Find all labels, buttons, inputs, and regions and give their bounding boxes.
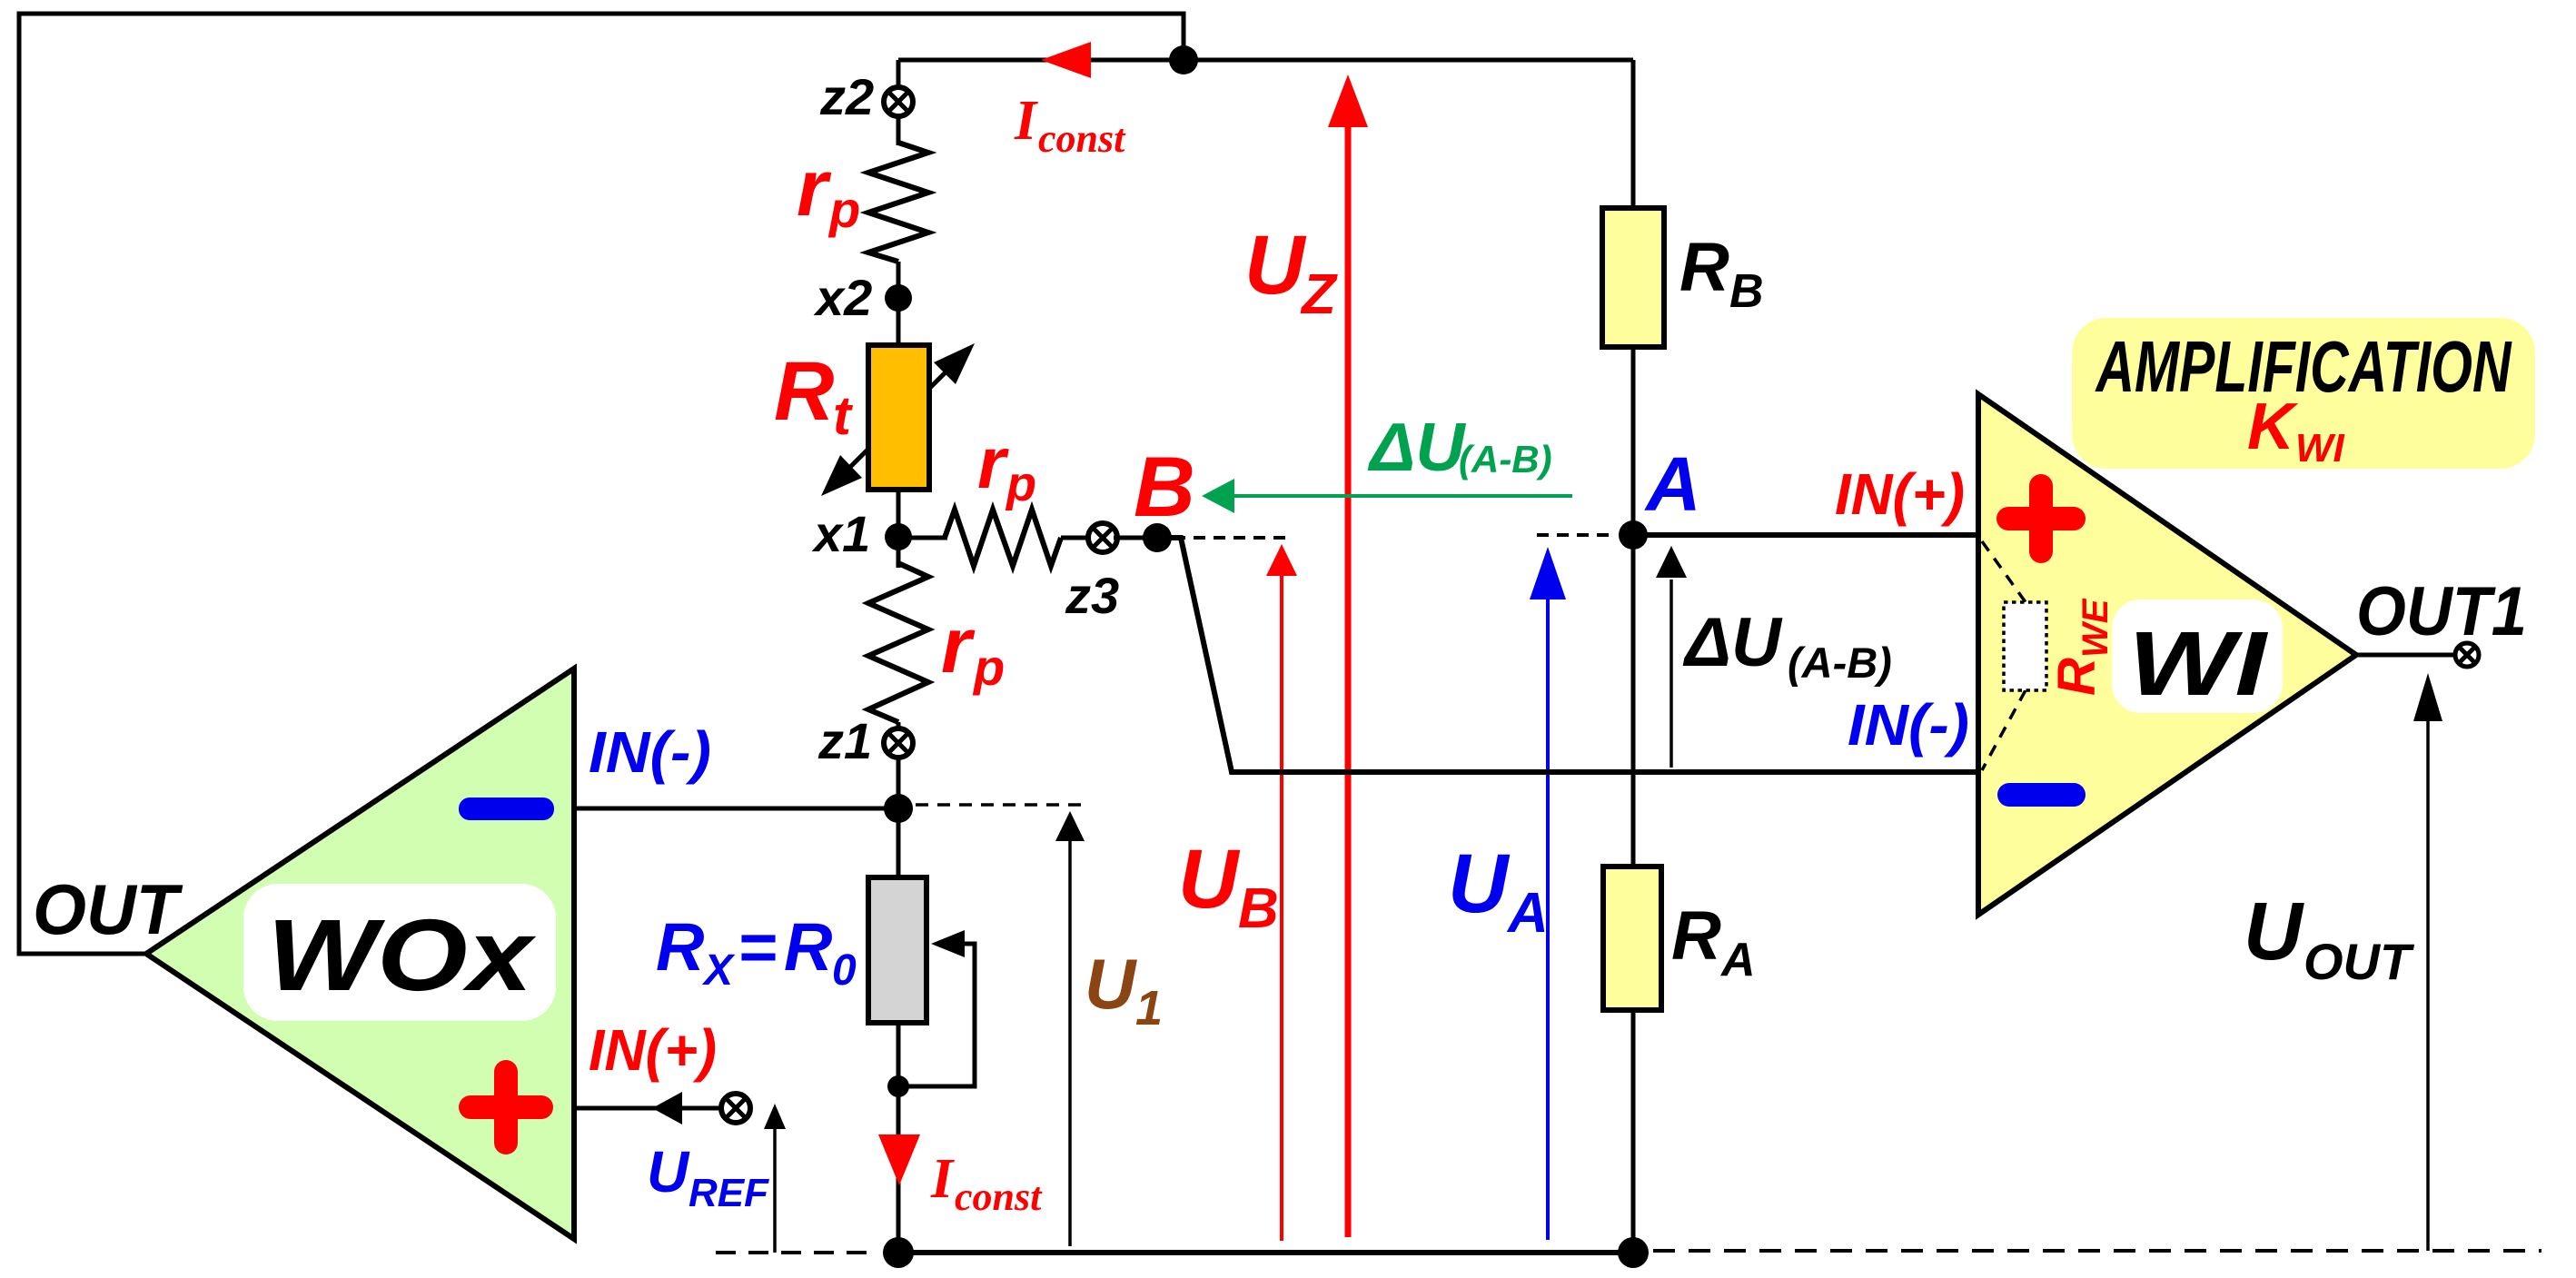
voltage arrow UOUT — [2426, 719, 2430, 1251]
thermistor Rt body — [868, 345, 929, 490]
svg-text:B: B — [1729, 265, 1764, 318]
node B — [1143, 523, 1172, 552]
WI minus input marker — [1997, 783, 2086, 807]
svg-text:AMPLIFICATION: AMPLIFICATION — [2095, 326, 2512, 407]
wire B to WI IN(-) — [1159, 538, 1980, 772]
node U1 junction — [884, 794, 913, 823]
voltage arrow U1 — [1068, 840, 1072, 1246]
svg-text:const: const — [1038, 116, 1126, 161]
svg-text:p: p — [827, 181, 860, 238]
svg-text:B: B — [1134, 439, 1195, 534]
terminal OUT1 — [2455, 643, 2479, 667]
dashed bottom right segment — [1653, 1249, 2541, 1253]
svg-text:p: p — [972, 639, 1005, 696]
terminal z1 — [884, 728, 913, 758]
svg-text:R: R — [2047, 658, 2106, 696]
node bottom left — [883, 1237, 914, 1268]
svg-text:U: U — [1178, 833, 1241, 926]
terminal z3 — [1088, 523, 1117, 552]
svg-text:IN(+): IN(+) — [1835, 461, 1965, 527]
wire RB to node A — [1631, 347, 1636, 538]
svg-text:A: A — [1506, 882, 1549, 945]
potentiometer Rx body — [868, 877, 926, 1023]
svg-text:R: R — [1671, 897, 1721, 975]
resistor RB body — [1602, 208, 1664, 347]
svg-text:0: 0 — [832, 946, 857, 995]
svg-text:ΔU: ΔU — [1367, 409, 1466, 485]
terminal UREF input — [721, 1094, 750, 1123]
voltage arrow UREF — [773, 1127, 777, 1253]
label RWE (rotated) — [2047, 598, 2115, 696]
svg-text:I: I — [930, 1148, 955, 1210]
callout AMPLIFICATION KWI — [2072, 318, 2535, 469]
svg-text:X: X — [701, 946, 736, 995]
svg-text:U: U — [647, 1139, 690, 1204]
resistor RWE (dotted) — [2004, 602, 2046, 690]
svg-text:R: R — [774, 345, 834, 438]
svg-text:Z: Z — [1300, 263, 1338, 326]
wire lead z2 to rp1 — [897, 115, 901, 145]
svg-text:x1: x1 — [811, 505, 870, 562]
svg-text:IN(+): IN(+) — [589, 1017, 717, 1083]
WOx name plate — [243, 884, 556, 1021]
svg-text:I: I — [1014, 90, 1038, 152]
resistor rp1 zigzag — [868, 143, 928, 262]
wire rp3 to z1 — [897, 722, 901, 734]
svg-text:IN(-): IN(-) — [589, 719, 711, 785]
svg-text:U: U — [1085, 944, 1137, 1024]
svg-text:OUT: OUT — [33, 869, 183, 949]
voltage arrow UB — [1280, 574, 1283, 1241]
voltage arrow UA — [1546, 598, 1550, 1240]
dashed level line at A — [1537, 533, 1617, 537]
svg-text:OUT: OUT — [2304, 933, 2415, 990]
svg-text:R: R — [1679, 229, 1729, 306]
wire z3 to B — [1114, 536, 1157, 540]
resistor RA body — [1603, 867, 1661, 1010]
wire IN(-) from WOx to node — [574, 807, 898, 811]
wire Rt to x1 — [897, 490, 901, 538]
svg-text:U: U — [2244, 887, 2304, 977]
amplifier WI body — [1978, 394, 2356, 915]
wire node A to WI IN(+) — [1633, 532, 1980, 538]
svg-text:x2: x2 — [813, 269, 872, 326]
wire WI output — [2356, 653, 2456, 658]
terminal z2 — [884, 87, 913, 116]
wire feedback loop from WOx OUT to top bus — [19, 14, 1184, 954]
svg-text:1: 1 — [1135, 981, 1163, 1035]
WI name plate — [2112, 599, 2283, 713]
svg-text:z2: z2 — [819, 68, 874, 125]
WOx plus input marker — [459, 1095, 553, 1119]
svg-text:K: K — [2247, 391, 2299, 463]
wire IN(+) of WOx with arrowhead — [574, 1106, 724, 1111]
svg-text:OUT1: OUT1 — [2356, 573, 2527, 650]
node A — [1619, 520, 1648, 550]
node x1 — [885, 523, 912, 550]
wire z2 lead — [897, 60, 901, 118]
node junction top bus — [1169, 45, 1198, 74]
resistor rp2 zigzag horizontal — [945, 510, 1061, 566]
svg-text:U: U — [1244, 219, 1307, 312]
wire node A to RA — [1631, 535, 1636, 870]
wire z1 to summing node — [897, 757, 901, 813]
op-amp WOx body — [146, 669, 574, 1239]
current arrow Iconst (down) — [878, 1134, 920, 1185]
svg-text:z1: z1 — [817, 712, 872, 769]
svg-text:A: A — [1644, 441, 1701, 527]
WI plus input marker — [1996, 507, 2086, 530]
wire rp1 to x2 — [897, 262, 901, 300]
wire x1 to rp2 — [898, 536, 947, 540]
svg-text:U: U — [1448, 837, 1511, 930]
wire rp2 to z3 — [1061, 536, 1092, 540]
wire node to Rx — [897, 808, 901, 881]
wire RA to bottom node — [1631, 1010, 1636, 1253]
dashed level line at B — [1174, 536, 1292, 540]
svg-text:WE: WE — [2076, 598, 2115, 658]
node wiper tap — [887, 1075, 909, 1097]
svg-text:r: r — [941, 602, 976, 689]
green arrow dU(A-B) — [1228, 494, 1572, 498]
svg-text:r: r — [797, 143, 832, 233]
potentiometer wiper arrow — [898, 944, 975, 1086]
svg-text:R: R — [656, 909, 704, 985]
svg-text:WI: WI — [2295, 426, 2345, 471]
wire RB top lead — [1631, 60, 1636, 212]
dashed link IN(+) to RWE — [1982, 541, 2026, 602]
svg-text:WI: WI — [2128, 613, 2269, 715]
svg-text:t: t — [833, 385, 854, 446]
svg-text:(A-B): (A-B) — [1459, 438, 1552, 480]
svg-text:(A-B): (A-B) — [1788, 639, 1892, 687]
WOx minus input marker — [459, 798, 554, 820]
wire x2 to Rt — [897, 298, 901, 350]
svg-text:R: R — [784, 909, 832, 985]
svg-text:ΔU: ΔU — [1682, 604, 1783, 681]
svg-text:B: B — [1238, 877, 1279, 940]
thermistor Rt diagonal arrow — [836, 357, 961, 481]
voltage arrow UZ — [1345, 124, 1352, 1237]
node x2 — [885, 284, 912, 312]
node bottom right — [1618, 1237, 1649, 1268]
svg-text:z3: z3 — [1065, 567, 1119, 624]
bottom ground bus wire — [898, 1250, 1633, 1255]
svg-text:IN(-): IN(-) — [1848, 692, 1969, 758]
svg-text:REF: REF — [689, 1171, 769, 1215]
wire Rx to bottom node — [897, 1023, 901, 1253]
dashed link RWE to IN(-) — [1982, 690, 2026, 770]
svg-text:A: A — [1719, 934, 1756, 986]
svg-text:p: p — [1005, 457, 1036, 511]
svg-text:r: r — [977, 422, 1009, 503]
svg-text:const: const — [955, 1174, 1043, 1219]
wire top bus y=66 — [898, 58, 1633, 63]
current arrow Iconst (left-pointing) — [1041, 42, 1091, 78]
svg-text:=: = — [738, 909, 777, 985]
resistor rp3 zigzag — [897, 537, 901, 568]
dashed bottom left segment — [716, 1251, 877, 1254]
svg-text:WOx: WOx — [267, 898, 537, 1012]
dashed level line at U1 node — [916, 803, 1085, 807]
voltage arrow dU(A-B) black — [1669, 580, 1673, 768]
